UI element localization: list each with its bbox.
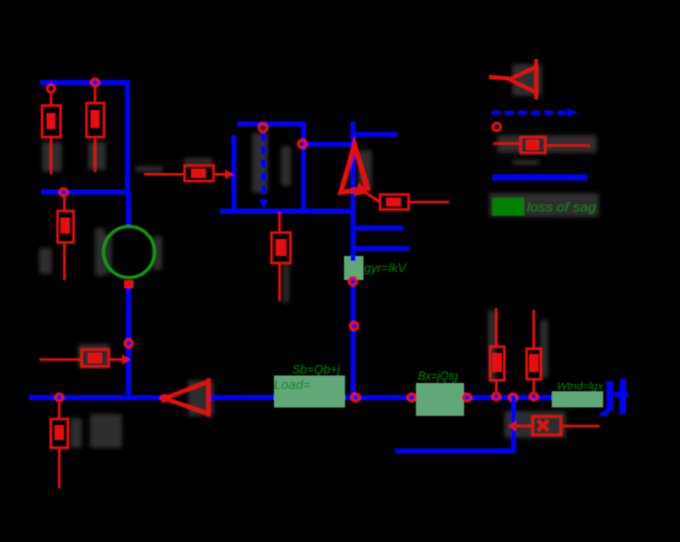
node left of label box 2 (408, 394, 416, 402)
tall middle vertical wire (351, 122, 356, 398)
legend label box (492, 198, 524, 216)
legend dashed arrow (492, 111, 567, 115)
stub mid right 1 (355, 226, 403, 231)
svg-text:loss of sag: loss of sag (527, 201, 596, 215)
node on middle top wire (259, 124, 267, 132)
legend impedance (493, 137, 590, 153)
legend arrow/amplifier symbol (489, 59, 536, 99)
label bbox on middle wire (344, 256, 364, 280)
wire horizontal L-run to the left (395, 448, 515, 453)
wire generator bottom lead (126, 288, 131, 398)
middle left vertical wire (231, 135, 236, 213)
resistor R4 (hangs from bus at left) (51, 394, 68, 489)
resistor R7 (above bus) (527, 310, 541, 400)
label box 3 on bus right (552, 391, 603, 407)
resistor R2 (87, 79, 105, 172)
wire bottom bus left segment (29, 395, 166, 400)
junction node at bus (352, 394, 360, 402)
svg-text:Bx=jQtg: Bx=jQtg (418, 371, 459, 383)
wire from node to tall vertical (303, 142, 353, 147)
svg-text:Sb=Qb+j: Sb=Qb+j (292, 365, 340, 377)
wire vertical below junction node (511, 397, 516, 453)
stub mid right 2 (355, 246, 409, 251)
middle bus (220, 209, 354, 214)
impedance Z1 horizontal with arrow into generator lead (39, 350, 130, 367)
impedance Z4 with arrow into vertical wire (508, 417, 600, 436)
label box 1 on bus (274, 376, 345, 408)
stub upper right (352, 132, 398, 137)
resistor R5 (below middle bus) (272, 212, 291, 301)
middle right vertical wire (301, 122, 306, 214)
resistor R1 (42, 85, 61, 174)
node mid wire (350, 322, 358, 330)
wire generator top lead (126, 192, 131, 228)
resistor R3 (below left bottom wire) (58, 189, 74, 281)
node right of label box 2 (463, 394, 471, 402)
legend solid wire (492, 174, 587, 180)
transformer delta triangle (341, 145, 368, 192)
impedance Z3 (diagonal + box) (354, 183, 450, 210)
svg-text:Wtnd=lgx: Wtnd=lgx (557, 381, 604, 393)
middle top wire (237, 122, 306, 127)
wire top-left horizontal (40, 80, 130, 85)
node below small label (349, 278, 357, 286)
legend node circle (493, 123, 501, 131)
junction node on bus (509, 394, 517, 402)
label box 2 on bus (416, 383, 464, 416)
generator terminal square (124, 280, 134, 288)
node on right vertical (298, 140, 306, 148)
wire bottom bus right segment (208, 395, 561, 400)
dashed current arrow (down) (261, 133, 266, 201)
svg-text:Load=: Load= (274, 377, 311, 392)
resistor R6 (above bus) (490, 308, 504, 400)
impedance Z2 with arrow into left vertical wire (144, 166, 234, 182)
wire segment over label bbox (top) (351, 255, 356, 262)
ghost label texts (dark gray smudges) (39, 64, 599, 448)
infinite bus glyphs (blue) (600, 379, 628, 414)
node on generator lead (125, 340, 133, 348)
wire lower-left horizontal (41, 190, 130, 195)
wire segment over label bbox (bottom) (351, 276, 356, 282)
svg-text:gyr=lkV: gyr=lkV (364, 261, 407, 275)
wire top-left vertical (125, 80, 130, 192)
generator G1 circle (104, 227, 155, 278)
arrow/amplifier on bus (points left) (161, 379, 208, 417)
